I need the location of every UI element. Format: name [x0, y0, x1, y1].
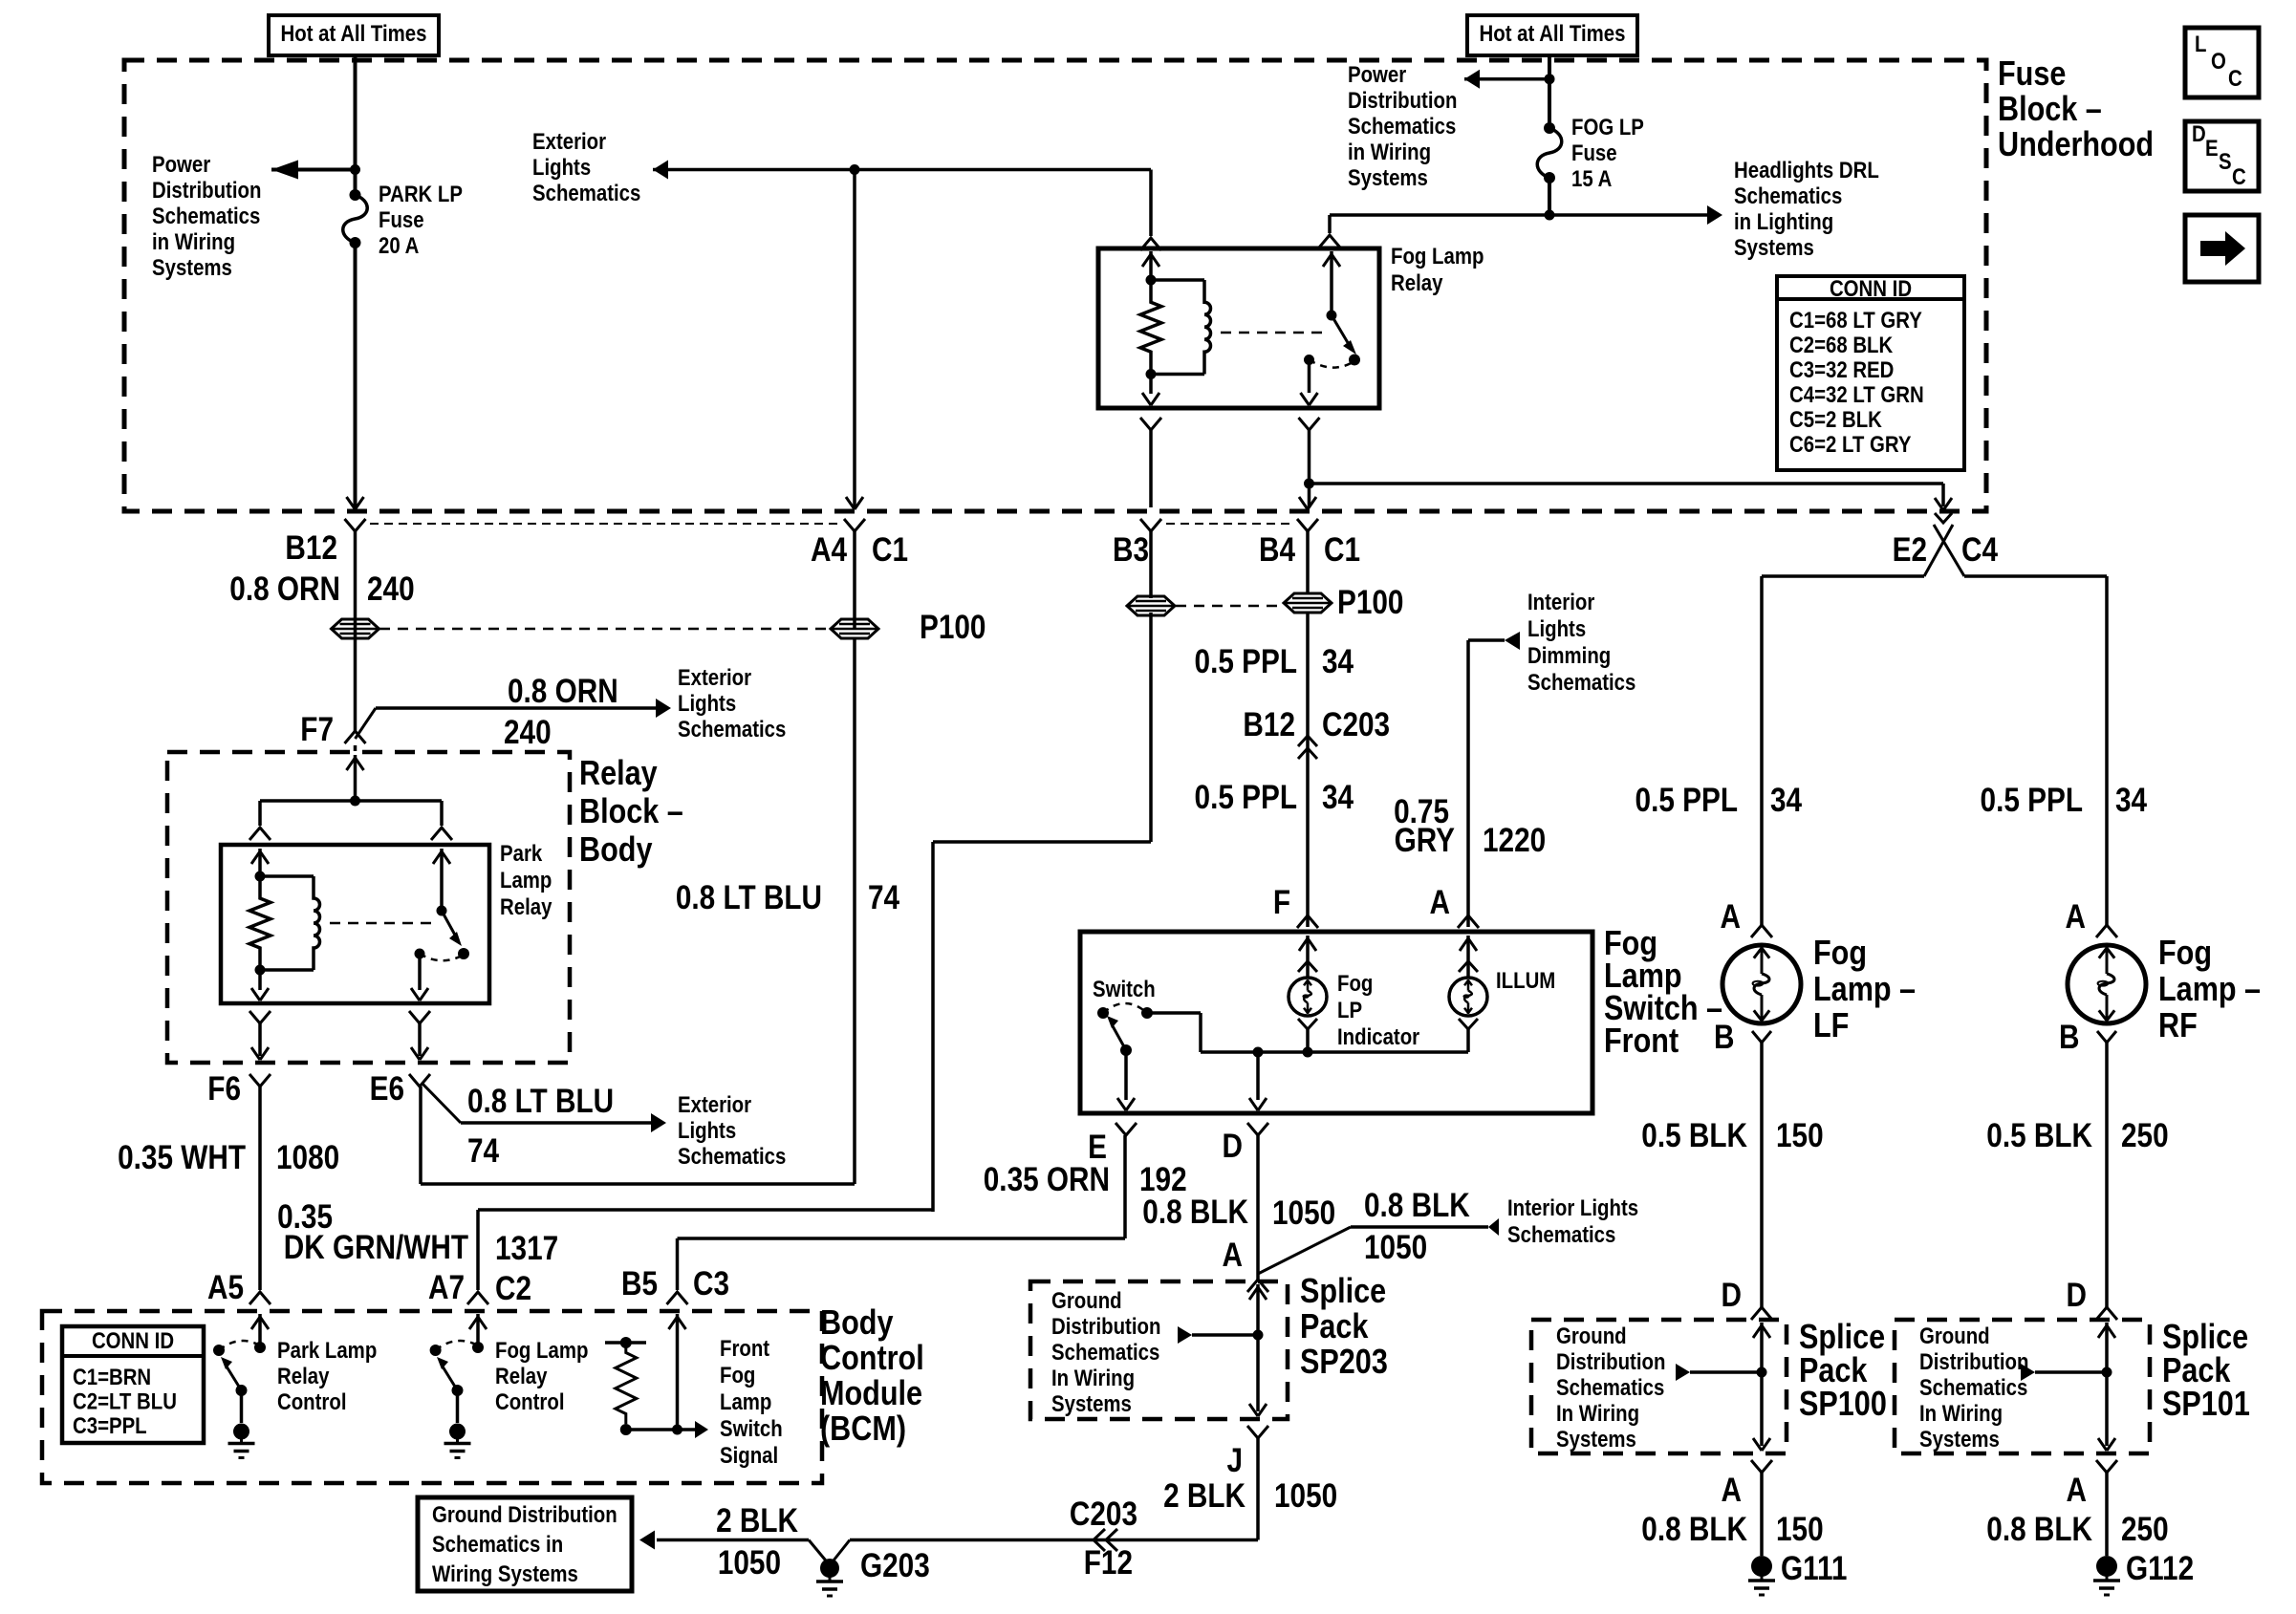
svg-text:F: F — [1273, 884, 1290, 921]
svg-text:B12: B12 — [1243, 706, 1295, 743]
svg-text:D: D — [1722, 1277, 1742, 1314]
svg-text:F6: F6 — [207, 1070, 241, 1108]
svg-text:Control: Control — [277, 1388, 347, 1414]
svg-text:SP101: SP101 — [2162, 1386, 2250, 1424]
svg-text:Front: Front — [1604, 1022, 1679, 1061]
svg-text:Fog: Fog — [720, 1362, 755, 1388]
svg-text:B: B — [1714, 1019, 1734, 1056]
svg-text:Splice: Splice — [1300, 1273, 1386, 1311]
svg-text:0.5 PPL: 0.5 PPL — [1981, 782, 2083, 819]
svg-text:(BCM): (BCM) — [820, 1410, 906, 1449]
svg-text:in Wiring: in Wiring — [152, 228, 235, 254]
svg-text:B12: B12 — [285, 529, 337, 567]
svg-text:0.5 PPL: 0.5 PPL — [1195, 643, 1297, 680]
svg-text:Distribution: Distribution — [1348, 87, 1457, 113]
svg-text:Schematics: Schematics — [532, 180, 640, 205]
svg-text:Body: Body — [579, 831, 653, 870]
svg-text:D: D — [1223, 1128, 1243, 1165]
svg-text:Module: Module — [820, 1375, 922, 1413]
svg-text:C3=PPL: C3=PPL — [73, 1412, 147, 1438]
svg-text:2 BLK: 2 BLK — [716, 1502, 798, 1539]
svg-text:1050: 1050 — [1274, 1477, 1337, 1515]
svg-text:Pack: Pack — [1799, 1352, 1868, 1390]
svg-text:A: A — [2067, 1472, 2087, 1509]
svg-text:Control: Control — [820, 1340, 924, 1378]
svg-text:Block –: Block – — [1998, 91, 2102, 129]
svg-text:0.8 BLK: 0.8 BLK — [1142, 1194, 1248, 1231]
svg-text:Hot at All Times: Hot at All Times — [1480, 20, 1626, 46]
svg-text:Interior Lights: Interior Lights — [1507, 1194, 1638, 1220]
svg-text:C4=32 LT GRN: C4=32 LT GRN — [1789, 381, 1924, 407]
svg-text:0.8 BLK: 0.8 BLK — [1641, 1511, 1747, 1548]
svg-text:In Wiring: In Wiring — [1919, 1400, 2003, 1426]
svg-text:0.8 LT BLU: 0.8 LT BLU — [676, 879, 822, 916]
svg-text:Systems: Systems — [1734, 234, 1814, 260]
svg-text:E: E — [2205, 135, 2219, 161]
svg-text:Pack: Pack — [2162, 1352, 2231, 1390]
svg-text:Park: Park — [500, 840, 543, 866]
svg-text:C1=68 LT GRY: C1=68 LT GRY — [1789, 307, 1922, 333]
svg-text:C203: C203 — [1322, 706, 1390, 743]
svg-text:Fog Lamp: Fog Lamp — [495, 1337, 588, 1363]
svg-text:0.8 ORN: 0.8 ORN — [508, 673, 618, 710]
svg-text:CONN ID: CONN ID — [1830, 275, 1912, 301]
svg-text:in Wiring: in Wiring — [1348, 139, 1431, 164]
svg-text:G203: G203 — [860, 1547, 930, 1584]
svg-text:A7: A7 — [428, 1269, 465, 1306]
svg-text:Lights: Lights — [678, 1117, 736, 1143]
svg-text:B5: B5 — [621, 1265, 658, 1302]
svg-text:C3: C3 — [693, 1265, 729, 1302]
svg-text:Relay: Relay — [579, 755, 658, 793]
svg-text:Schematics in: Schematics in — [432, 1531, 563, 1557]
svg-text:34: 34 — [2115, 782, 2147, 819]
svg-text:E6: E6 — [370, 1070, 404, 1108]
svg-text:Control: Control — [495, 1388, 565, 1414]
svg-text:Underhood: Underhood — [1998, 126, 2154, 164]
svg-text:Exterior: Exterior — [532, 128, 606, 154]
svg-text:D: D — [2067, 1277, 2087, 1314]
svg-text:1050: 1050 — [1364, 1229, 1427, 1266]
svg-text:Lamp: Lamp — [720, 1388, 771, 1414]
svg-text:S: S — [2219, 148, 2232, 174]
svg-text:C: C — [2228, 65, 2242, 91]
svg-text:1080: 1080 — [276, 1139, 339, 1176]
svg-text:0.8 BLK: 0.8 BLK — [1364, 1187, 1470, 1224]
svg-text:B: B — [2059, 1019, 2079, 1056]
svg-text:Fuse: Fuse — [1571, 140, 1617, 165]
svg-text:Systems: Systems — [152, 254, 232, 280]
svg-text:74: 74 — [868, 879, 899, 916]
svg-text:O: O — [2211, 48, 2226, 74]
svg-text:Distribution: Distribution — [1919, 1348, 2028, 1374]
svg-text:Fog: Fog — [1337, 970, 1373, 996]
svg-text:0.35 ORN: 0.35 ORN — [984, 1161, 1110, 1198]
svg-text:Schematics: Schematics — [678, 716, 786, 742]
svg-text:In Wiring: In Wiring — [1051, 1365, 1135, 1390]
svg-text:192: 192 — [1139, 1161, 1187, 1198]
svg-text:LP: LP — [1337, 997, 1362, 1022]
svg-text:E2: E2 — [1893, 531, 1927, 569]
svg-text:A: A — [2066, 898, 2086, 936]
svg-text:Ground: Ground — [1919, 1323, 1990, 1348]
svg-text:1220: 1220 — [1483, 822, 1546, 859]
svg-text:34: 34 — [1770, 782, 1802, 819]
svg-text:DK GRN/WHT: DK GRN/WHT — [284, 1229, 468, 1266]
svg-text:20 A: 20 A — [379, 232, 419, 258]
svg-text:Lights: Lights — [532, 154, 591, 180]
svg-text:A: A — [1721, 898, 1741, 936]
svg-text:1050: 1050 — [1272, 1194, 1335, 1232]
svg-text:Headlights DRL: Headlights DRL — [1734, 157, 1879, 183]
svg-text:Power: Power — [1348, 61, 1407, 87]
svg-text:34: 34 — [1322, 779, 1354, 816]
svg-text:B4: B4 — [1259, 531, 1295, 569]
svg-text:Block –: Block – — [579, 793, 683, 831]
svg-text:Relay: Relay — [1391, 269, 1443, 295]
svg-text:A: A — [1223, 1237, 1243, 1274]
svg-text:240: 240 — [504, 714, 552, 751]
svg-text:Ground Distribution: Ground Distribution — [432, 1501, 617, 1527]
svg-text:Fog: Fog — [2158, 935, 2212, 973]
svg-text:Relay: Relay — [495, 1363, 548, 1388]
svg-text:D: D — [2192, 120, 2206, 146]
svg-text:1317: 1317 — [495, 1230, 558, 1267]
svg-text:74: 74 — [467, 1132, 499, 1170]
svg-text:RF: RF — [2158, 1007, 2198, 1045]
svg-text:Systems: Systems — [1051, 1390, 1132, 1416]
svg-text:Fuse: Fuse — [379, 206, 424, 232]
svg-text:A: A — [1722, 1472, 1742, 1509]
svg-text:Switch: Switch — [720, 1415, 783, 1441]
svg-text:1050: 1050 — [718, 1544, 781, 1582]
svg-text:Schematics: Schematics — [1919, 1374, 2027, 1400]
svg-text:2 BLK: 2 BLK — [1163, 1477, 1245, 1515]
svg-text:Relay: Relay — [500, 893, 552, 919]
svg-text:Pack: Pack — [1300, 1308, 1369, 1346]
svg-text:Fog Lamp: Fog Lamp — [1391, 243, 1484, 269]
svg-text:0.8 ORN: 0.8 ORN — [229, 570, 340, 608]
svg-text:C3=32 RED: C3=32 RED — [1789, 356, 1894, 382]
svg-text:250: 250 — [2121, 1511, 2169, 1548]
svg-text:Splice: Splice — [1799, 1319, 1885, 1357]
svg-text:Ground: Ground — [1556, 1323, 1627, 1348]
svg-text:Schematics: Schematics — [1527, 669, 1635, 695]
svg-text:Lamp: Lamp — [500, 867, 552, 893]
svg-text:Distribution: Distribution — [1051, 1313, 1160, 1339]
svg-text:Lights: Lights — [1527, 615, 1586, 641]
svg-text:150: 150 — [1776, 1511, 1824, 1548]
svg-text:E: E — [1088, 1129, 1107, 1166]
svg-text:P100: P100 — [920, 609, 986, 646]
svg-text:A: A — [1430, 884, 1450, 921]
svg-text:Distribution: Distribution — [152, 177, 261, 203]
svg-text:C5=2 BLK: C5=2 BLK — [1789, 406, 1882, 432]
svg-text:Front: Front — [720, 1335, 770, 1361]
svg-text:Lights: Lights — [678, 690, 736, 716]
svg-text:Dimming: Dimming — [1527, 642, 1611, 668]
svg-text:Lamp –: Lamp – — [2158, 971, 2261, 1009]
svg-text:GRY: GRY — [1395, 822, 1456, 859]
svg-text:LF: LF — [1813, 1007, 1849, 1045]
svg-text:0.5 BLK: 0.5 BLK — [1641, 1117, 1747, 1154]
svg-text:Fog: Fog — [1813, 935, 1867, 973]
svg-text:C6=2 LT GRY: C6=2 LT GRY — [1789, 431, 1912, 457]
svg-text:SP203: SP203 — [1300, 1344, 1388, 1382]
svg-text:Distribution: Distribution — [1556, 1348, 1665, 1374]
svg-text:F12: F12 — [1084, 1544, 1133, 1582]
svg-text:Lamp –: Lamp – — [1813, 971, 1916, 1009]
svg-text:C1: C1 — [1324, 531, 1360, 569]
svg-text:Body: Body — [820, 1304, 894, 1343]
svg-text:Systems: Systems — [1556, 1426, 1636, 1452]
svg-text:B3: B3 — [1113, 531, 1149, 569]
svg-text:0.8 BLK: 0.8 BLK — [1986, 1511, 2092, 1548]
svg-text:A4: A4 — [811, 531, 847, 569]
svg-text:Exterior: Exterior — [678, 664, 751, 690]
svg-text:in Lighting: in Lighting — [1734, 208, 1833, 234]
svg-text:Interior: Interior — [1527, 589, 1595, 614]
svg-text:Fuse: Fuse — [1998, 55, 2066, 94]
svg-text:C2=68 BLK: C2=68 BLK — [1789, 332, 1893, 357]
svg-text:0.35 WHT: 0.35 WHT — [118, 1139, 246, 1176]
svg-text:Signal: Signal — [720, 1442, 778, 1468]
svg-text:G111: G111 — [1781, 1550, 1847, 1587]
svg-text:J: J — [1226, 1442, 1243, 1479]
svg-text:Exterior: Exterior — [678, 1091, 751, 1117]
svg-text:Switch: Switch — [1093, 976, 1156, 1001]
svg-text:Indicator: Indicator — [1337, 1023, 1419, 1049]
svg-text:Wiring Systems: Wiring Systems — [432, 1560, 578, 1586]
svg-text:250: 250 — [2121, 1117, 2169, 1154]
svg-text:C4: C4 — [1961, 531, 1998, 569]
svg-text:240: 240 — [367, 570, 415, 608]
svg-text:Systems: Systems — [1919, 1426, 2000, 1452]
svg-text:PARK LP: PARK LP — [379, 181, 463, 206]
svg-text:0.8 LT BLU: 0.8 LT BLU — [467, 1083, 614, 1120]
svg-text:0.5 BLK: 0.5 BLK — [1986, 1117, 2092, 1154]
svg-text:G112: G112 — [2126, 1550, 2194, 1587]
svg-text:L: L — [2195, 31, 2206, 56]
svg-text:0.5 PPL: 0.5 PPL — [1635, 782, 1738, 819]
svg-text:Splice: Splice — [2162, 1319, 2248, 1357]
svg-text:C1: C1 — [872, 531, 908, 569]
svg-text:34: 34 — [1322, 643, 1354, 680]
svg-text:ILLUM: ILLUM — [1496, 967, 1555, 993]
svg-text:Systems: Systems — [1348, 164, 1428, 190]
svg-text:Schematics: Schematics — [678, 1143, 786, 1169]
svg-text:Relay: Relay — [277, 1363, 330, 1388]
svg-text:Hot at All Times: Hot at All Times — [281, 20, 427, 46]
svg-text:C1=BRN: C1=BRN — [73, 1364, 151, 1389]
svg-text:C2: C2 — [495, 1270, 531, 1307]
svg-text:Power: Power — [152, 151, 211, 177]
svg-text:FOG LP: FOG LP — [1571, 114, 1644, 140]
svg-text:Schematics: Schematics — [1734, 183, 1842, 208]
svg-text:Schematics: Schematics — [1051, 1339, 1159, 1365]
svg-text:C: C — [2232, 163, 2246, 189]
svg-text:CONN ID: CONN ID — [92, 1327, 174, 1353]
svg-text:0.5 PPL: 0.5 PPL — [1195, 779, 1297, 816]
svg-text:SP100: SP100 — [1799, 1386, 1887, 1424]
svg-text:Ground: Ground — [1051, 1287, 1122, 1313]
svg-text:Schematics: Schematics — [1507, 1221, 1615, 1247]
svg-text:A5: A5 — [207, 1269, 244, 1306]
svg-text:Schematics: Schematics — [152, 203, 260, 228]
svg-text:150: 150 — [1776, 1117, 1824, 1154]
svg-text:P100: P100 — [1337, 584, 1403, 621]
svg-text:C2=LT BLU: C2=LT BLU — [73, 1388, 177, 1414]
svg-text:F7: F7 — [300, 711, 334, 748]
svg-text:15 A: 15 A — [1571, 165, 1612, 191]
svg-text:Schematics: Schematics — [1556, 1374, 1664, 1400]
svg-text:Park Lamp: Park Lamp — [277, 1337, 377, 1363]
svg-text:C203: C203 — [1070, 1496, 1137, 1533]
svg-text:In Wiring: In Wiring — [1556, 1400, 1639, 1426]
svg-text:Schematics: Schematics — [1348, 113, 1456, 139]
